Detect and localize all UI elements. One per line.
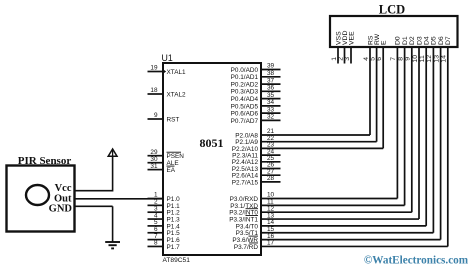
pin 4 P1.3: [148, 212, 181, 223]
svg-text:P0.0/AD0: P0.0/AD0: [231, 67, 259, 74]
LCD pin 2 stub: [344, 47, 346, 64]
svg-text:PIR Sensor: PIR Sensor: [18, 155, 72, 167]
svg-text:31: 31: [150, 163, 158, 170]
AT89C51 label: [163, 257, 191, 264]
LCD pin name D2: [409, 36, 416, 45]
svg-text:P0.7/AD7: P0.7/AD7: [231, 118, 259, 125]
svg-text:U1: U1: [162, 53, 173, 63]
pin 13 P3.3/INT1: [229, 212, 280, 223]
LCD pin name VDD: [342, 31, 349, 45]
svg-text:38: 38: [267, 70, 275, 77]
ground symbol: [105, 242, 120, 248]
svg-text:XTAL2: XTAL2: [167, 91, 187, 98]
svg-text:18: 18: [150, 87, 158, 94]
power symbol Vcc arrow: [108, 149, 117, 156]
pin 35 P0.4/AD4: [231, 92, 281, 103]
svg-text:D6: D6: [438, 36, 445, 45]
pin 32 P0.7/AD7: [231, 114, 281, 125]
svg-text:EA: EA: [167, 167, 176, 174]
svg-text:P0.5/AD5: P0.5/AD5: [231, 103, 259, 110]
LCD pin 1 stub: [337, 47, 339, 64]
PIR sensor module body: [7, 166, 75, 232]
svg-text:37: 37: [267, 77, 275, 84]
pin 21 P2.0/A8: [235, 128, 280, 139]
svg-text:P3.7/RD: P3.7/RD: [234, 244, 259, 251]
pin 36 P0.3/AD3: [231, 85, 281, 96]
svg-text:D1: D1: [402, 36, 409, 45]
svg-text:D2: D2: [409, 36, 416, 45]
pin 24 P2.3/A11: [232, 148, 280, 159]
svg-text:XTAL1: XTAL1: [167, 69, 187, 76]
pin 6 P1.5: [148, 226, 181, 237]
wire LCD pin 5 to 8051 P2.1/A9: [281, 47, 377, 142]
LCD pin name D7: [445, 36, 452, 45]
pin 28 P2.7/A15: [232, 175, 281, 186]
pin 33 P0.6/AD6: [231, 106, 281, 117]
wire LCD pin 13 to 8051 P3.6/WR: [281, 47, 441, 240]
pin 30 ALE: [148, 156, 179, 167]
wire GND from PIR down to ground: [75, 206, 113, 242]
svg-text:33: 33: [267, 106, 275, 113]
svg-text:29: 29: [150, 149, 158, 156]
LCD pin number 2: [337, 57, 344, 61]
svg-text:7: 7: [390, 57, 397, 61]
pin 23 P2.2/A10: [232, 142, 281, 153]
svg-text:14: 14: [441, 55, 448, 63]
svg-text:D0: D0: [395, 36, 402, 45]
8051 value label: [200, 136, 224, 150]
LCD pin number 5: [369, 57, 376, 61]
op 8051 U1 body: [163, 63, 261, 255]
wire LCD pin 11 to 8051 P3.4/T0: [281, 47, 427, 226]
svg-text:PSEN: PSEN: [167, 153, 185, 160]
wire LCD pin 14 to 8051 P3.7/RD: [281, 47, 448, 246]
svg-text:P2.7/A15: P2.7/A15: [232, 179, 259, 186]
pin 7 P1.6: [148, 233, 181, 244]
svg-text:Vcc: Vcc: [55, 183, 72, 194]
wire LCD pin 9 to 8051 P3.2/INT0: [281, 47, 412, 212]
svg-text:P0.4/AD4: P0.4/AD4: [231, 96, 259, 103]
svg-text:17: 17: [267, 240, 275, 247]
LCD pin number 11: [419, 55, 426, 62]
pin 3 P1.2: [148, 205, 181, 216]
U1 reference label: [162, 53, 173, 63]
svg-text:8051: 8051: [200, 136, 224, 150]
svg-text:D3: D3: [416, 36, 423, 45]
pin 38 P0.1/AD1: [231, 70, 281, 81]
pin 25 P2.4/A12: [232, 155, 281, 166]
pin 14 P3.4/T0: [236, 219, 281, 230]
svg-text:©WatElectronics.com: ©WatElectronics.com: [364, 255, 469, 267]
pin 37 P0.2/AD2: [231, 77, 281, 88]
svg-text:P1.7: P1.7: [167, 244, 181, 251]
LCD title: [379, 3, 405, 17]
svg-text:28: 28: [267, 175, 275, 182]
wire LCD pin 10 to 8051 P3.3/INT1: [281, 47, 420, 219]
LCD pin name D4: [424, 36, 431, 45]
svg-text:13: 13: [433, 55, 440, 63]
svg-text:9: 9: [154, 112, 158, 119]
PIR pin label Vcc: [55, 183, 72, 194]
pin 12 P3.2/INT0: [229, 205, 280, 216]
LCD pin number 10: [412, 55, 419, 63]
LCD pin 3 stub: [350, 47, 352, 64]
LCD body: [330, 16, 458, 47]
pin 27 P2.6/A14: [232, 168, 281, 179]
svg-text:19: 19: [150, 65, 158, 72]
pin 31 EA: [148, 163, 176, 174]
pin 39 P0.0/AD0: [231, 63, 281, 74]
svg-text:39: 39: [267, 63, 275, 70]
LCD pin number 6: [376, 57, 383, 61]
PIR Sensor label: [18, 155, 72, 167]
LCD pin name RS: [367, 35, 374, 45]
LCD pin number 9: [405, 57, 412, 61]
pin 9 RST: [148, 112, 180, 123]
wire LCD pin 12 to 8051 P3.5/T1: [281, 47, 434, 233]
pin 26 P2.5/A13: [232, 162, 281, 173]
WatElectronics watermark: [364, 255, 469, 267]
svg-text:35: 35: [267, 92, 275, 99]
pin 11 P3.1/TXD: [230, 199, 280, 210]
LCD pin number 3: [344, 57, 351, 61]
svg-text:8: 8: [397, 57, 404, 61]
PIR pin label GND: [49, 204, 73, 215]
LCD pin number 12: [426, 55, 433, 63]
svg-text:E: E: [381, 40, 388, 45]
pin 10 P3.0/RXD: [230, 192, 281, 203]
pin 29 PSEN: [148, 149, 185, 160]
pin 1 P1.0: [148, 192, 181, 203]
LCD pin name D5: [431, 36, 438, 45]
svg-text:RST: RST: [167, 116, 180, 123]
svg-text:GND: GND: [49, 204, 73, 215]
LCD pin number 8: [397, 57, 404, 61]
wire LCD pin 6 to 8051 P2.2/A10: [281, 47, 384, 148]
LCD pin name D6: [438, 36, 445, 45]
pin 8 P1.7: [148, 240, 181, 251]
wire Vcc from PIR to power rail: [75, 156, 113, 192]
svg-text:10: 10: [412, 55, 419, 63]
pin 34 P0.5/AD5: [231, 99, 281, 110]
LCD pin name RW: [374, 33, 381, 45]
pin 22 P2.1/A9: [235, 135, 280, 146]
LCD pin number 4: [363, 57, 370, 61]
pin 15 P3.5/T1: [236, 226, 281, 237]
svg-text:34: 34: [267, 99, 275, 106]
svg-text:D5: D5: [431, 36, 438, 45]
svg-text:D4: D4: [424, 36, 431, 45]
svg-text:36: 36: [267, 85, 275, 92]
pin 16 P3.6/WR: [232, 233, 280, 244]
LCD pin name D1: [402, 36, 409, 45]
LCD pin name VEE: [348, 31, 355, 45]
svg-text:P0.6/AD6: P0.6/AD6: [231, 111, 259, 118]
pin 17 P3.7/RD: [234, 240, 281, 251]
LCD pin name D3: [416, 36, 423, 45]
svg-text:VEE: VEE: [348, 31, 355, 45]
svg-text:32: 32: [267, 114, 275, 121]
svg-text:12: 12: [426, 55, 433, 63]
pin 2 P1.1: [148, 199, 181, 210]
svg-text:D7: D7: [445, 36, 452, 45]
svg-text:P0.2/AD2: P0.2/AD2: [231, 82, 259, 89]
svg-text:P0.3/AD3: P0.3/AD3: [231, 89, 259, 96]
LCD pin number 13: [433, 55, 440, 63]
LCD pin number 7: [390, 57, 397, 61]
pin 18 XTAL2: [148, 87, 187, 98]
PIR pin label Out: [54, 194, 72, 205]
pin 5 P1.4: [148, 219, 181, 230]
LCD pin number 1: [331, 57, 338, 61]
svg-text:LCD: LCD: [379, 3, 405, 17]
wire Out from PIR to 8051 P1.0: [75, 198, 164, 200]
LCD pin name VSS: [335, 31, 342, 45]
svg-text:9: 9: [405, 57, 412, 61]
pin 19 XTAL1: [148, 65, 187, 76]
wire LCD pin 4 to 8051 P2.0/A8: [281, 47, 371, 135]
LCD pin number 14: [441, 55, 448, 63]
svg-text:11: 11: [419, 55, 426, 62]
LCD pin name D0: [395, 36, 402, 45]
svg-text:8: 8: [154, 240, 158, 247]
svg-text:AT89C51: AT89C51: [163, 257, 191, 264]
svg-text:P0.1/AD1: P0.1/AD1: [231, 74, 259, 81]
PIR lens circle: [26, 185, 49, 205]
LCD pin name E: [381, 40, 388, 45]
wire LCD pin 8 to 8051 P3.1/TXD: [281, 47, 405, 205]
wire LCD pin 7 to 8051 P3.0/RXD: [281, 47, 398, 199]
